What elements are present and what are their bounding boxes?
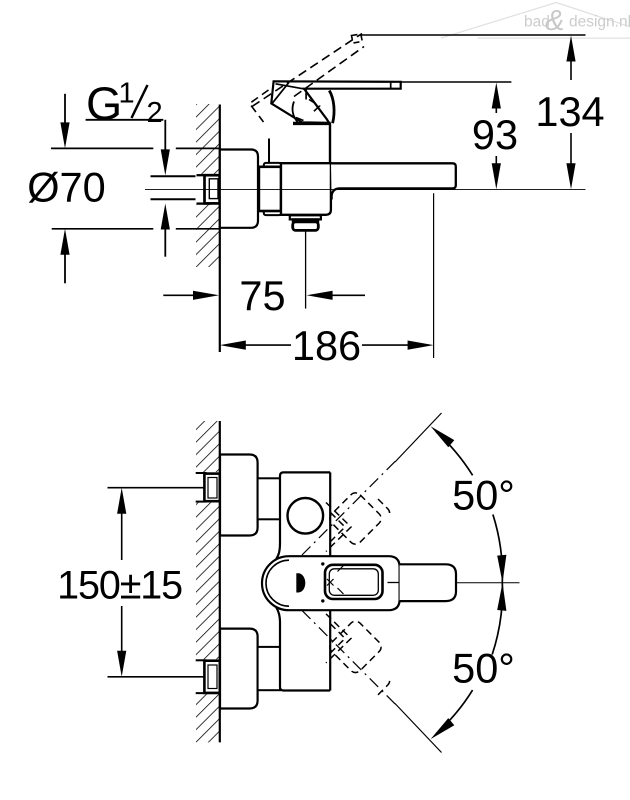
lower adapter: [258, 647, 280, 690]
pivot cross: [327, 564, 345, 594]
svg-text:50°: 50°: [452, 471, 515, 518]
svg-text:&: &: [545, 5, 564, 37]
svg-text:G: G: [86, 78, 122, 130]
spout: [331, 163, 456, 199]
svg-text:design.nl: design.nl: [569, 14, 630, 31]
handle plate outer: [325, 565, 383, 599]
svg-text:Ø70: Ø70: [27, 163, 105, 210]
upper adapter: [258, 478, 280, 519]
wall hatch: [196, 421, 220, 742]
dimension Ø70: [27, 94, 219, 283]
dimension 75: [163, 232, 365, 320]
cartridge housing: [269, 91, 334, 164]
adapter lip: [264, 163, 281, 215]
upper radial line 50deg: [302, 413, 442, 555]
wall face line: [219, 105, 221, 353]
dimension G 1/2: [86, 78, 170, 257]
handle plate inner: [329, 569, 378, 596]
upper dashed diamond (handle pos +50): [326, 490, 390, 551]
stadium inner arc: [266, 560, 289, 606]
centerline of faucet axis: [145, 189, 586, 191]
watermark house outline: [441, 3, 630, 39]
svg-text:186: 186: [292, 322, 361, 369]
dimension 134: [360, 35, 605, 189]
dimension 93: [401, 82, 518, 189]
outlet stack under body: [290, 215, 321, 219]
body bar right edge: [329, 472, 331, 555]
svg-text:50°: 50°: [452, 645, 515, 692]
lower escutcheon: [220, 629, 258, 709]
dimension 186: [220, 193, 434, 369]
svg-text:93: 93: [472, 111, 518, 158]
svg-text:75: 75: [239, 272, 285, 319]
pivot dots: [321, 562, 324, 565]
lower angle arc: [436, 583, 502, 734]
lower union fitting: [196, 659, 221, 694]
lever tip seam: [390, 82, 392, 89]
body bar outline: [276, 472, 330, 559]
upper union fitting: [196, 472, 221, 503]
lever neck: [400, 564, 456, 601]
svg-text:1: 1: [119, 78, 135, 110]
valve body: [281, 163, 331, 215]
lower dashed diamond (handle pos -50): [326, 614, 390, 695]
upper escutcheon: [220, 455, 258, 536]
adapter collar: [259, 167, 281, 211]
handle raised position (dashed): [250, 34, 365, 123]
dome circle: [288, 498, 324, 534]
centerline segments: [388, 582, 399, 584]
aerator blob: [296, 573, 305, 592]
inlet pipe: [151, 175, 208, 177]
wall face line: [219, 421, 221, 742]
handle lever (solid position): [271, 81, 400, 123]
dimension 150±15: [57, 488, 204, 677]
svg-text:150±15: 150±15: [57, 563, 182, 607]
cartridge dome arc: [293, 102, 298, 123]
spout stadium: [262, 556, 400, 610]
escutcheon (side): [220, 150, 258, 228]
wall hatch (top view wall): [196, 104, 220, 267]
wall fitting (threaded union): [196, 174, 221, 204]
lower radial line 50deg: [302, 610, 442, 752]
svg-text:2: 2: [147, 97, 163, 129]
upper angle arc: [436, 432, 502, 583]
svg-text:134: 134: [535, 88, 604, 135]
watermark text bad&design.nl: [524, 5, 630, 37]
